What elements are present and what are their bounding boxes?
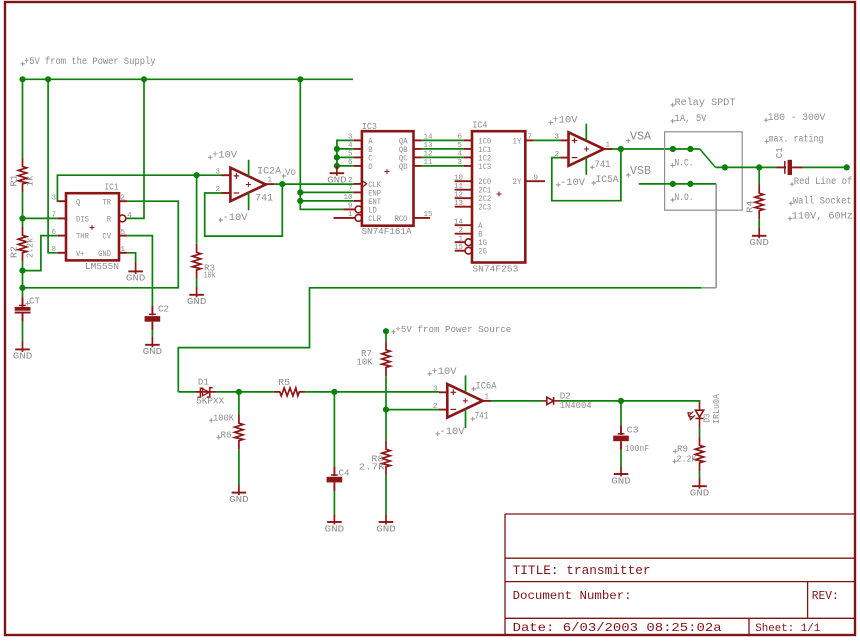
IC4 pin 7 1Y stub [525,139,533,141]
svg-text:5: 5 [121,229,126,237]
resistor R7 [382,341,390,376]
wire 1Y to IC5A input [534,139,561,141]
ground R3 [187,287,207,307]
IC3 pin 4 B stub [354,148,362,150]
ground R8 [376,514,396,534]
svg-text:1k: 1k [26,176,36,187]
ground R4 [749,228,769,248]
wire C3 to ground [620,450,622,467]
svg-text:GND: GND [143,347,163,357]
svg-text:GND: GND [690,489,710,499]
svg-text:IC1: IC1 [105,182,119,193]
svg-text:2.2k: 2.2k [26,238,36,258]
ground CT [13,341,33,362]
svg-text:2.7K: 2.7K [359,463,386,473]
junction R6 node [236,389,242,395]
svg-text:GND: GND [327,176,347,186]
IC1 origin cross [90,225,95,230]
junction ENP [297,189,303,195]
IC5A pin 2 stub [560,157,568,159]
junction IC2A output [279,181,285,187]
svg-text:D: D [368,163,372,172]
IC1 pin 1 GND stub [119,252,127,254]
svg-text:CLR: CLR [368,215,381,224]
capacitor C3 [613,425,629,450]
svg-text:7: 7 [528,134,533,142]
ground C2 [143,337,163,357]
svg-text:5KPXX: 5KPXX [196,396,224,407]
label +10V IC5A [549,120,554,125]
svg-text:9: 9 [348,203,353,211]
node +5V power source dot [383,328,389,334]
svg-text:D1: D1 [198,376,209,387]
svg-text:1: 1 [606,141,611,149]
svg-text:10k: 10k [204,270,216,280]
IC4 pin 2G stub with bubble [455,250,466,252]
relay NO wire [639,183,716,185]
svg-text:741: 741 [255,192,273,203]
wire QD to 1C3 [422,165,464,167]
wire +5V to R7 [385,331,387,341]
IC6A power wire top [465,375,467,392]
svg-text:QD: QD [399,163,408,172]
relay common contact dot [670,146,676,152]
svg-text:SN74F253: SN74F253 [472,263,518,274]
svg-text:REV:: REV: [812,590,839,603]
junction rail-IC3 [297,76,303,82]
svg-text:2G: 2G [478,248,487,257]
svg-text:Relay SPDT: Relay SPDT [675,97,736,109]
IC6A pin 3 stub [439,391,447,393]
IC3 pin 6 D stub [354,165,362,167]
resistor R2 [18,227,26,262]
wire CT to ground [22,322,24,341]
label N.O. [671,198,676,203]
svg-text:+10V: +10V [553,115,579,127]
label R9 [673,449,678,454]
svg-text:2.2K: 2.2K [677,453,697,464]
svg-text:GND: GND [325,524,345,534]
svg-text:1Y: 1Y [513,137,522,146]
svg-text:100K: 100K [213,412,234,423]
IC6A output stub [483,400,491,402]
svg-text:6: 6 [457,134,462,142]
label 1A 5V [671,119,676,124]
svg-text:9: 9 [534,174,539,182]
IC3 pin 9 LD stub with bubble [343,208,355,210]
relay box outline [665,132,743,210]
LED D3 [688,403,704,428]
svg-text:10K: 10K [357,358,374,368]
junction IC6A pin2 node [383,407,389,413]
wire rail to R1 [22,79,24,158]
svg-text:2: 2 [348,177,353,185]
wire R1 to R2 [22,193,24,227]
IC3 pin 5 C stub [354,156,362,158]
wire R3 to ground [196,279,198,287]
relay NC contact dot [687,146,693,152]
svg-text:15: 15 [424,211,434,219]
junction rail-R1 [19,76,25,82]
ground IC1 pin1 [126,263,146,284]
wire R8 to ground [385,476,387,515]
wire IC5A feedback [552,149,621,201]
junction R4 node [756,164,762,170]
wire TR loop to CT node [23,201,179,288]
wire R4 to ground [758,220,760,229]
svg-text:GND: GND [126,274,146,284]
label Red Line of [790,182,795,187]
svg-text:R6: R6 [221,429,232,440]
svg-text:GND: GND [229,495,249,505]
wire main line left [178,391,195,393]
svg-text:4: 4 [457,151,462,159]
wire THR to divider [23,236,58,271]
svg-text:Document Number:: Document Number: [513,589,632,603]
resistor R9 [695,437,703,472]
svg-text:C3: C3 [627,425,639,436]
IC4 pins 2C0-2C3 stubs unconnected [455,180,472,182]
IC1 pin 6 THR stub [58,235,66,237]
svg-text:2: 2 [121,195,126,203]
resistor R3 [192,244,200,279]
IC1 pin 5 CV stub [119,235,127,237]
wire C3 down [620,401,622,425]
title block [505,514,854,634]
svg-text:100nF: 100nF [625,443,649,454]
ground C4 [325,514,345,534]
svg-text:GND: GND [13,352,33,362]
diode D2 [542,397,559,405]
wire rail to ENP ENT LD [300,79,353,209]
svg-text:1: 1 [458,235,463,243]
IC6A power wire bottom [465,409,467,428]
wire R2 to CT [22,262,24,298]
wire NO net to bottom circuit [178,288,701,392]
label Wall Socket [789,201,794,206]
label CT [26,301,31,306]
svg-text:Date: 6/03/2003 08:25:02a: Date: 6/03/2003 08:25:02a [513,621,722,635]
capacitor CT [15,297,31,321]
IC3 pin 1 CLR stub with bubble [334,217,356,219]
svg-text:Sheet: 1/1: Sheet: 1/1 [755,623,820,635]
svg-text:VSB: VSB [630,164,651,178]
wire DIS to divider [23,217,58,219]
svg-text:741: 741 [595,159,611,170]
svg-text:12: 12 [454,191,463,199]
junction IC3 C [334,154,340,160]
label 741 IC6A [471,417,476,422]
IC4 origin cross [497,192,502,197]
IC3 pin 2 CLK stub [354,183,362,185]
wire QB to 1C1 [422,148,464,150]
svg-text:1: 1 [268,177,273,185]
wire QC to 1C2 [422,156,464,158]
IC IC4 SN74F253 body [472,131,525,262]
svg-text:+10V: +10V [212,149,238,161]
junction IC5A output [618,146,624,152]
IC4 pin A stub [455,224,472,226]
svg-text:LM555N: LM555N [85,261,119,272]
svg-text:IC4: IC4 [472,120,487,131]
svg-text:V+: V+ [76,250,85,259]
svg-text:N.O.: N.O. [675,193,694,204]
label 180 - 300V [764,118,769,123]
relay switch arm [700,149,716,167]
resistor R1 [18,158,26,193]
wire R5 to opamp input [305,391,439,393]
svg-text:1C3: 1C3 [478,163,491,172]
svg-text:13: 13 [454,200,464,208]
op-amp IC6A triangle [447,384,482,418]
IC5A power wire top [585,124,587,141]
IC1 pin 8 V+ stub [58,252,66,254]
label IC5A [592,181,597,186]
label VSA [626,139,631,144]
wire D2 to LED corner [560,401,700,403]
svg-text:15: 15 [454,244,464,252]
label 2.2K value [673,459,678,464]
svg-text:C1: C1 [775,147,785,158]
capacitor C4 [327,466,343,491]
svg-text:SN74F161A: SN74F161A [362,226,412,237]
wire V+ from rail [48,79,58,253]
wire C1 to wall [803,166,847,168]
IC IC1 LM555N body [66,193,119,260]
wire R7 to pin2 node and R8 [385,376,387,440]
svg-text:2Y: 2Y [513,178,522,187]
svg-text:max. rating: max. rating [769,133,824,145]
label max. rating [765,139,770,144]
svg-text:R4: R4 [745,201,755,213]
wire C4 down [333,392,335,467]
IC IC3 SN74F161A body [362,131,414,226]
svg-text:+10V: +10V [432,366,458,378]
IC3 pin 15 RCO stub [414,217,431,219]
svg-text:180 - 300V: 180 - 300V [768,113,826,124]
resistor R6 [235,415,243,450]
wire arm to C1 [716,166,777,168]
svg-text:-10V: -10V [560,177,586,189]
junction TR node [19,285,25,291]
svg-text:RCO: RCO [395,215,408,224]
label -10V IC2A [219,218,224,223]
svg-text:N.C.: N.C. [675,158,694,169]
svg-text:IRLu0A: IRLu0A [712,393,722,424]
label 110V 60Hz [788,216,793,221]
wire IC1 GND pin [127,253,135,263]
wire R6 down [238,392,240,415]
svg-text:DIS: DIS [76,216,89,225]
svg-text:2: 2 [458,227,463,235]
relay NO contact dot 1 [670,181,676,187]
label 100K [209,418,214,423]
svg-text:1A, 5V: 1A, 5V [675,113,708,125]
IC4 pins 1C0-1C3 stubs [464,139,472,141]
svg-text:Red Line of: Red Line of [794,176,853,188]
wire R6 to ground [238,450,240,486]
junction DIS node [19,215,25,221]
gray wire NO down [715,184,717,288]
svg-text:1: 1 [485,393,490,401]
svg-text:-10V: -10V [223,212,249,224]
svg-text:3: 3 [554,134,559,142]
junction ENT [297,198,303,204]
IC2A power wire bottom [248,192,250,210]
svg-text:R1: R1 [10,175,20,187]
resistor R5 [274,388,306,396]
label -10V IC5A [556,183,561,188]
IC3 right pin stubs QA-QD [414,139,422,141]
wire IC5A output VSA [612,148,700,150]
wire QA to 1C0 [422,139,464,141]
svg-text:11: 11 [454,183,464,191]
label +10V IC6A [428,372,433,377]
svg-text:TR: TR [102,198,111,207]
wire C2 to ground [151,330,153,337]
wire R4 from node [758,167,760,184]
gray wire NO bottom [701,287,716,289]
junction op-amp + input / R3 [194,172,200,178]
svg-text:IC5A: IC5A [596,174,619,185]
ground IC3 ABCD [327,166,347,186]
IC4 pin 9 2Y stub unconnected [525,180,545,182]
capacitor C1 [776,160,802,175]
svg-text:GND: GND [98,250,111,259]
svg-text:-10V: -10V [440,426,466,438]
wire IC3 ABCD tie [337,140,354,166]
svg-text:IC6A: IC6A [476,380,497,391]
svg-text:1: 1 [121,246,126,254]
label -10V IC6A [436,432,441,437]
wire +5V rail [23,78,354,80]
svg-text:GND: GND [376,524,396,534]
junction THR node [19,268,25,274]
wire C4 to ground [333,491,335,514]
svg-text:TITLE: transmitter: TITLE: transmitter [513,564,651,578]
svg-text:GND: GND [611,476,631,486]
label 741 IC5A [590,165,595,170]
IC1 pin 3 Q stub [58,200,66,202]
IC3 clock mark [362,180,367,187]
svg-text:3: 3 [457,159,462,167]
capacitor C2 [145,306,161,331]
wire pin2 node to IC6A [386,409,439,411]
svg-text:10: 10 [454,174,464,182]
node wall end dot [844,164,850,170]
svg-text:IC3: IC3 [362,121,377,132]
label +10V IC2A [208,155,213,160]
svg-text:3: 3 [215,168,220,176]
svg-text:2C3: 2C3 [478,204,491,213]
resistor R4 [755,185,763,220]
svg-text:GND: GND [187,297,207,307]
junction rail-V+ [45,76,51,82]
IC4 pin 1G stub with bubble [455,241,466,243]
svg-text:Wall Socket: Wall Socket [793,195,852,207]
svg-text:IC2A: IC2A [257,166,281,177]
IC5A power wire bottom [585,157,587,175]
wire Q to op-amp input [57,175,221,201]
IC3 pin 7 ENP stub [354,191,362,193]
svg-text:GND: GND [749,238,769,248]
svg-text:741: 741 [475,410,489,421]
wire D1 to R5 [216,391,274,393]
IC5A pin 3 stub [560,139,568,141]
junction rail-reset [141,76,147,82]
wire R reset to rail [126,79,144,218]
relay NO contact dot 2 [687,181,693,187]
ground C3 [611,466,631,486]
label +5V from Power Source [391,330,396,335]
svg-text:VSA: VSA [630,130,652,144]
svg-text:14: 14 [454,218,464,226]
svg-text:R2: R2 [10,246,20,258]
junction IC3 B [334,146,340,152]
wire CV to C2 [127,236,152,306]
wire IC2A output to IC3 CLK [274,183,353,185]
IC4 pin B stub [455,233,472,235]
svg-text:R5: R5 [278,377,290,388]
diode D1 [196,388,216,398]
IC3 pin 3 A stub [354,139,362,141]
label R6 [217,435,222,440]
wire IC2A feedback [205,184,283,236]
op-amp IC5A triangle [569,132,604,166]
svg-text:3: 3 [433,386,438,394]
wire R3 from input node [196,175,198,244]
svg-text:5: 5 [457,142,462,150]
svg-text:3: 3 [51,195,56,203]
resistor R8 [382,441,390,476]
svg-text:C4: C4 [339,468,350,479]
svg-text:CV: CV [102,233,111,242]
svg-text:R: R [107,216,111,225]
IC6A pin 2 stub [439,409,447,411]
junction arm output [722,164,728,170]
wire LED to R9 [699,427,701,437]
IC3 pin 10 ENT stub [354,200,362,202]
IC1 pin 4 R bubble [119,215,126,222]
wire IC6A output [491,400,542,402]
ground R9 [690,479,710,499]
label Vo [282,174,287,179]
svg-text:1: 1 [348,211,353,219]
svg-text:THR: THR [76,233,89,242]
ground R6 [229,485,249,505]
svg-text:110V, 60Hz: 110V, 60Hz [792,212,853,223]
wire R9 to ground [699,472,701,479]
IC5A output stub [604,148,612,150]
IC1 pin 2 TR stub [119,200,127,202]
label +5V from the Power Supply [21,62,26,67]
svg-text:Vo: Vo [285,168,296,179]
junction C4 node [331,389,337,395]
IC1 pin 7 DIS stub [58,217,66,219]
svg-text:Q: Q [76,198,80,207]
IC3 origin cross [385,169,390,174]
svg-text:+5V from the Power Supply: +5V from the Power Supply [24,56,156,68]
op-amp IC2A triangle [230,168,265,202]
label VSB [626,173,631,178]
junction C3 node [618,398,624,404]
svg-text:CT: CT [29,295,40,306]
svg-text:C2: C2 [158,304,169,315]
label Relay SPDT [671,103,676,108]
junction IC3 D [334,163,340,169]
IC2A pin 3 stub [222,174,231,176]
IC2A output stub [266,183,275,185]
